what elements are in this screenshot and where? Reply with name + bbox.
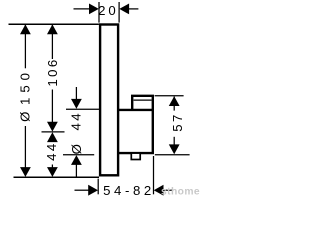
- dimension 44 (lower left) bottom arrow: [47, 167, 58, 177]
- extension line knob bottom (right): [155, 154, 190, 156]
- dimension 54-82 right arrow (points left): [154, 185, 164, 196]
- dimension 57 top arrow: [169, 96, 180, 106]
- dimension 44 (lower left) top arrow: [47, 132, 58, 142]
- dimension Ø44 bottom arrow (points up at handle bottom): [71, 155, 82, 165]
- dimension 54-82 left tail: [75, 189, 90, 191]
- extension line plate-depth right (x=119): [118, 2, 120, 23]
- svg-text:Ø: Ø: [18, 112, 33, 122]
- svg-text:57: 57: [170, 112, 185, 131]
- dimension Ø106 line: [51, 25, 53, 59]
- extension line wall face (below plate): [97, 179, 99, 195]
- dimension Ø106 bottom arrow: [47, 122, 58, 132]
- extension line knob top (right): [155, 95, 184, 97]
- dimension 44 (lower left) line stub: [51, 165, 53, 170]
- dimension 20 right arrow (points left): [119, 4, 129, 15]
- svg-text:106: 106: [45, 57, 60, 86]
- svg-text:54-82: 54-82: [103, 183, 155, 198]
- dimension 20 left arrow (points right): [89, 4, 99, 15]
- svg-text:44: 44: [44, 141, 59, 160]
- svg-text:Ø: Ø: [69, 144, 84, 154]
- dimension Ø150 line: [24, 25, 26, 69]
- plate outline (side view): [100, 25, 118, 176]
- dimension Ø150 bottom arrow: [20, 167, 31, 177]
- dimension 20 right tail: [128, 8, 139, 10]
- dimension 54-82 left arrow (points right): [88, 185, 98, 196]
- dimension Ø44 (handle) upper tail: [75, 87, 77, 101]
- dimension 20 left tail: [74, 8, 91, 10]
- svg-text:44: 44: [69, 111, 84, 130]
- svg-text:150: 150: [18, 68, 33, 105]
- dimension Ø44 top arrow (points down at handle top): [71, 99, 82, 109]
- extension tick at handle centre (y=132): [42, 131, 65, 133]
- svg-text:sthome: sthome: [161, 187, 200, 198]
- bottom extension line (plate bottom, to the left): [14, 176, 100, 178]
- extension line at handle bottom: [63, 154, 94, 156]
- dimension 54-82 right tail: [162, 189, 173, 191]
- svg-text:20: 20: [98, 3, 119, 18]
- top extension line (plate top, to the left): [9, 23, 99, 25]
- handle body and knob outline: [119, 96, 153, 153]
- dimension Ø44 lower tail: [75, 163, 77, 177]
- dimension 57 line: [173, 97, 175, 111]
- dimension Ø106 top arrow: [47, 24, 58, 34]
- extension line at handle top: [66, 108, 101, 110]
- extension line knob front (below): [153, 156, 155, 194]
- safety-stop notch under handle: [131, 153, 140, 159]
- dimension Ø150 top arrow: [20, 24, 31, 34]
- extension line plate-depth left (x=99): [98, 2, 100, 23]
- knob inner groove line: [134, 99, 152, 101]
- dimension 57 bottom arrow: [169, 144, 180, 154]
